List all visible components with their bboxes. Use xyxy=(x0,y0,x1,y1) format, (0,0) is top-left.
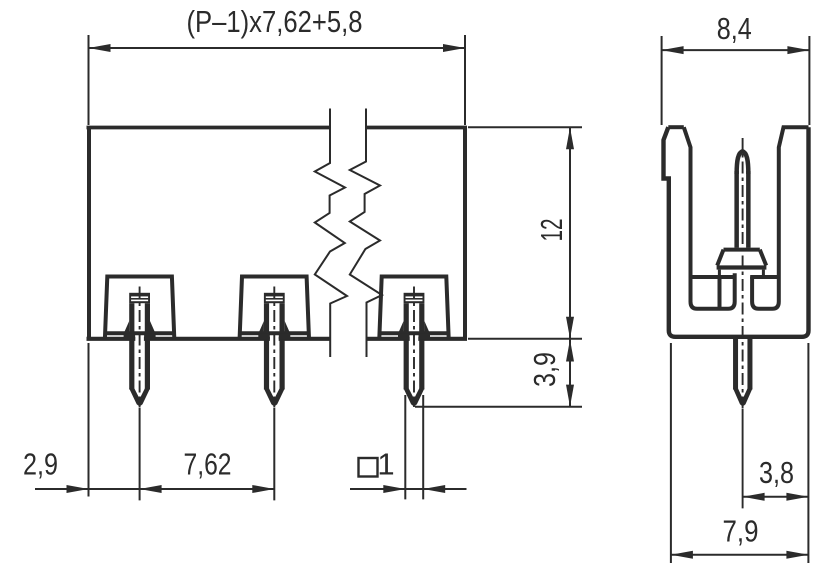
side view xyxy=(664,127,809,406)
pin 1 centerline xyxy=(139,287,141,408)
pin 2 housing trapezoid xyxy=(240,277,309,339)
arrow 8,4 right xyxy=(787,46,809,54)
arrow square1 right outside xyxy=(423,485,445,493)
side collar top xyxy=(724,248,760,252)
arrow 3,9 bottom xyxy=(566,385,574,407)
side collar lip verticals xyxy=(719,270,763,276)
arrow 3,9 top xyxy=(566,340,574,362)
svg-text:12: 12 xyxy=(534,219,569,242)
pin 3 right bar xyxy=(419,303,424,389)
pin 3 crimp slits xyxy=(406,296,423,298)
side latch inner wall + left pocket xyxy=(684,127,735,309)
pin 3 through blocks xyxy=(398,334,410,340)
pin3 edge extension lines xyxy=(405,395,423,499)
side collar sides xyxy=(717,250,766,266)
pin 2 left bar xyxy=(264,303,269,389)
arrow top dim left xyxy=(89,44,111,52)
side pin bars lower xyxy=(736,338,750,390)
square symbol xyxy=(359,458,378,477)
dim line 3,8 xyxy=(743,496,809,498)
arrow 3,8 left xyxy=(743,493,765,501)
front view body left edge xyxy=(87,128,91,339)
side shelf line right xyxy=(750,275,780,279)
arrow 7,9 left xyxy=(671,551,693,559)
arrow 7,62 right xyxy=(252,485,274,493)
pin 2 through blocks xyxy=(258,334,270,340)
bottom-left dim line xyxy=(35,488,274,490)
front view body top edge (left of break) xyxy=(87,126,331,130)
svg-text:(P–1)x7,62+5,8: (P–1)x7,62+5,8 xyxy=(187,4,363,39)
side top dim line xyxy=(662,49,810,51)
side pin dome tip xyxy=(737,151,749,174)
dim line 7,9 xyxy=(671,554,809,556)
pin 2 housing inner bottom line xyxy=(240,331,308,335)
arrow 7,62 left xyxy=(140,485,162,493)
side right wall + right pocket xyxy=(752,127,808,309)
side top dim extension lines xyxy=(662,36,810,125)
front view body right edge xyxy=(463,128,467,339)
svg-text:7,62: 7,62 xyxy=(184,447,232,482)
side collar bottom xyxy=(717,265,767,269)
arrow 12 top xyxy=(566,127,574,149)
side shelf line left xyxy=(690,275,737,279)
pin 2 flare wedges xyxy=(259,321,291,333)
front view body top edge (right of break) xyxy=(366,126,467,130)
side left pocket divider xyxy=(718,278,722,308)
centerlines xyxy=(742,138,744,508)
pin 2 crimp block xyxy=(264,293,285,303)
pin 3 tip xyxy=(404,389,425,406)
dim line 3,9 xyxy=(569,339,571,407)
side outer contour with bottom xyxy=(664,127,809,337)
pin 1 crimp slits xyxy=(131,296,148,298)
top dim extension lines xyxy=(89,35,466,125)
svg-text:3,8: 3,8 xyxy=(759,455,794,490)
side pin centerline extension for 3,8 xyxy=(742,409,744,508)
break zigzag right xyxy=(350,109,382,358)
pin 3 left bar xyxy=(404,303,409,389)
bottom-left dim extension lines xyxy=(89,343,275,500)
dim line 12 xyxy=(569,127,571,339)
svg-text:2,9: 2,9 xyxy=(23,447,58,482)
arrow 7,9 right xyxy=(786,551,808,559)
pin 1 crimp block xyxy=(129,293,150,303)
side latch top edge xyxy=(668,125,684,129)
pin 2 tip xyxy=(264,389,285,406)
right dim extension lines xyxy=(415,127,582,407)
pin 1 housing inner bottom line xyxy=(106,331,174,335)
side pin tip xyxy=(733,389,752,406)
pin 3 housing trapezoid xyxy=(379,277,448,339)
arrow 12 bottom xyxy=(566,317,574,339)
arrowheads xyxy=(67,44,810,559)
arrow 3,8 right xyxy=(786,493,808,501)
arrow 2,9 outside xyxy=(67,485,89,493)
arrow 8,4 left xyxy=(662,46,684,54)
pin assemblies front view xyxy=(105,277,449,408)
side pin bars upper xyxy=(737,171,749,248)
front view body bottom edge segments xyxy=(87,337,468,341)
top dim line xyxy=(89,47,466,49)
pin 1 tip xyxy=(129,389,150,406)
arrow square1 left outside xyxy=(383,485,405,493)
svg-text:7,9: 7,9 xyxy=(723,514,759,549)
pin 2 right bar xyxy=(280,303,285,389)
svg-text:8,4: 8,4 xyxy=(717,11,752,46)
pin 1 housing trapezoid xyxy=(105,277,174,339)
pin 3 centerline xyxy=(413,287,415,408)
pin 1 left bar xyxy=(129,303,134,389)
svg-text:1: 1 xyxy=(377,447,394,482)
pin 1 right bar xyxy=(145,303,150,389)
pin 1 flare wedges xyxy=(124,321,156,333)
side pin centerline xyxy=(742,138,744,409)
pin 2 centerline xyxy=(273,287,275,408)
pin 1 through blocks xyxy=(124,334,136,340)
square-1 dim line xyxy=(350,488,467,490)
pin 2 crimp slits xyxy=(266,296,283,298)
svg-text:3,9: 3,9 xyxy=(527,352,562,387)
pin 3 flare wedges xyxy=(398,321,430,333)
break zigzag left xyxy=(315,109,347,358)
side bottom right extension lines xyxy=(671,343,809,563)
pin 3 crimp block xyxy=(404,293,425,303)
pin 3 housing inner bottom line xyxy=(380,331,448,335)
arrow top dim right xyxy=(443,44,465,52)
